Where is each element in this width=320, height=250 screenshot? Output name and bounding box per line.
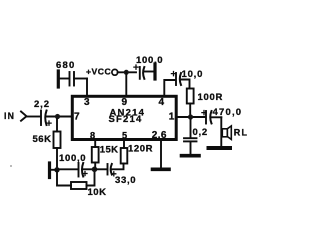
svg-text:2,2: 2,2 xyxy=(34,99,50,110)
svg-text:+VCC: +VCC xyxy=(86,67,111,77)
ground of C 0,2 xyxy=(182,154,200,158)
resistor 120R xyxy=(123,140,125,149)
capacitor C 680 xyxy=(57,71,60,87)
node output xyxy=(188,114,193,119)
svg-text:100,0: 100,0 xyxy=(136,55,163,66)
speaker RL xyxy=(222,129,227,137)
wire 10K to node N1 xyxy=(87,172,95,186)
plus of C10,0 xyxy=(171,72,175,76)
input terminal IN arrow xyxy=(21,112,27,121)
resistor 10K (horizontal) xyxy=(71,182,87,189)
wire ground bar to node xyxy=(51,169,57,171)
plus of C100,0 bottom xyxy=(83,172,87,176)
wire node down to 10K xyxy=(57,170,71,186)
IC U1 AN214/SF214 body xyxy=(72,96,176,139)
node at pin7/56K xyxy=(55,114,60,119)
svg-text:100,0: 100,0 xyxy=(59,153,86,164)
wire pin4 up and right xyxy=(164,80,175,96)
node VCC rail xyxy=(124,70,129,75)
svg-text:15K: 15K xyxy=(100,145,119,156)
wire speaker to ground xyxy=(220,117,222,146)
scan speck xyxy=(10,165,12,167)
svg-text:4: 4 xyxy=(159,97,165,108)
svg-text:0,2: 0,2 xyxy=(193,127,208,138)
capacitor C 2,2 xyxy=(40,111,42,126)
svg-text:7: 7 xyxy=(74,111,80,122)
capacitor C 100,0 (decoupling) xyxy=(139,67,141,79)
node N1 xyxy=(92,167,98,173)
plus of C33,0 xyxy=(112,172,116,176)
capacitor C 10,0 xyxy=(175,73,177,85)
svg-text:100R: 100R xyxy=(198,92,224,103)
svg-text:120R: 120R xyxy=(128,144,153,155)
svg-text:9: 9 xyxy=(122,97,128,108)
ground bar right of C100,0 xyxy=(153,64,156,79)
ground speaker xyxy=(209,146,231,150)
resistor 100R xyxy=(187,89,194,104)
wire pin9 xyxy=(125,72,127,96)
resistor 15K xyxy=(94,140,96,148)
svg-text:680: 680 xyxy=(56,60,75,71)
svg-text:RL: RL xyxy=(234,127,248,137)
capacitor C 470,0 xyxy=(205,111,207,124)
capacitor C 100,0 (feedback) xyxy=(57,168,78,170)
svg-text:56K: 56K xyxy=(33,134,52,145)
svg-text:33,0: 33,0 xyxy=(115,175,136,186)
svg-text:2,6: 2,6 xyxy=(152,130,167,141)
svg-text:10K: 10K xyxy=(88,187,107,198)
wire IN to C2,2 xyxy=(27,116,41,118)
svg-text:IN: IN xyxy=(4,111,15,121)
ground bar left of 56K node xyxy=(48,163,51,178)
svg-text:10,0: 10,0 xyxy=(182,69,204,80)
node 56K bottom xyxy=(54,167,59,172)
wire pin3 xyxy=(86,79,88,97)
wire C2,2 to pin 7 xyxy=(47,116,73,118)
resistor 56K xyxy=(56,119,58,132)
svg-text:3: 3 xyxy=(84,97,90,108)
capacitor C 0,2 xyxy=(190,120,192,138)
wire VCC to rail xyxy=(118,71,136,73)
plus of C100,0 top xyxy=(134,65,138,69)
ground of pins 2,6 xyxy=(153,168,170,172)
svg-text:1: 1 xyxy=(169,111,175,122)
svg-text:470,0: 470,0 xyxy=(213,107,243,118)
svg-text:SF214: SF214 xyxy=(109,114,143,125)
plus of C2,2 xyxy=(47,121,51,125)
plus of C470,0 xyxy=(202,111,206,115)
wire pins 2,6 to ground xyxy=(160,140,162,168)
capacitor C 33,0 xyxy=(95,168,108,170)
wire pin1 xyxy=(178,116,206,118)
